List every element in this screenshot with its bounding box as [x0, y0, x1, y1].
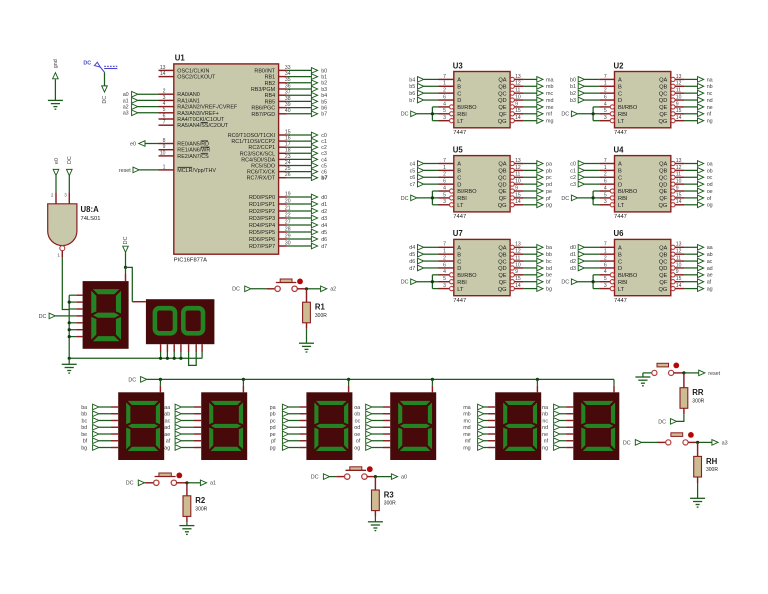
output terminal bf from U7 pin 15: [524, 279, 551, 286]
input terminal ng to bottom display 6: [542, 444, 573, 451]
svg-text:b3: b3: [321, 87, 327, 93]
input terminal a0 to U1 RA0: [123, 91, 159, 98]
input terminal e0 to U8:A: [53, 158, 60, 192]
svg-text:QD: QD: [659, 266, 668, 272]
ground symbol below R2: [179, 526, 194, 535]
svg-text:b4: b4: [409, 77, 415, 83]
svg-text:DC: DC: [401, 280, 409, 286]
svg-text:c6: c6: [321, 170, 327, 176]
output terminal oa from U4 pin 13: [684, 160, 712, 167]
svg-text:QD: QD: [498, 98, 507, 104]
wire bus to upper display1 pin 7: [68, 335, 83, 338]
svg-text:B: B: [457, 169, 461, 175]
svg-text:7447: 7447: [453, 130, 466, 136]
input terminal nf to bottom display 6: [544, 438, 574, 445]
svg-text:c2: c2: [321, 145, 327, 151]
output terminal md from U3 pin 10: [524, 97, 554, 104]
ground symbol below upper displays: [62, 358, 77, 373]
svg-text:md: md: [546, 98, 554, 104]
svg-text:aa: aa: [707, 245, 713, 251]
wire upper display2 bottom pin 4: [179, 344, 182, 360]
svg-text:U1: U1: [175, 53, 186, 62]
svg-text:pb: pb: [270, 412, 276, 418]
power terminal DC below RR: [658, 418, 676, 425]
input terminal d2 to U6 pin 2: [570, 258, 599, 265]
wire bus to upper display1 pin 4: [69, 315, 82, 317]
svg-text:QF: QF: [499, 196, 507, 202]
svg-text:LT: LT: [618, 119, 625, 125]
svg-text:ng: ng: [542, 445, 548, 451]
svg-text:DC: DC: [311, 475, 319, 481]
svg-text:RC5/SDO: RC5/SDO: [251, 164, 275, 170]
svg-text:LT: LT: [618, 287, 625, 293]
input terminal b6 to U3 pin 2: [409, 90, 438, 97]
svg-text:LT: LT: [457, 203, 464, 209]
svg-text:QA: QA: [659, 162, 667, 168]
input terminal mg to bottom display 5: [463, 444, 495, 451]
svg-text:BI/RBO: BI/RBO: [618, 273, 638, 279]
input terminal pa to bottom display 3: [270, 404, 307, 411]
input terminal d7 to U7 pin 6: [409, 265, 438, 272]
output terminal c1 from U1: [287, 138, 327, 145]
output terminal d2 from U1: [287, 208, 327, 215]
svg-text:DC: DC: [83, 61, 91, 67]
svg-text:QB: QB: [498, 84, 506, 90]
svg-text:pe: pe: [270, 432, 276, 438]
input terminal na to bottom display 6: [542, 404, 573, 411]
svg-text:be: be: [81, 432, 87, 438]
svg-text:ad: ad: [164, 425, 170, 431]
svg-text:a1: a1: [123, 98, 129, 104]
svg-text:of: of: [356, 439, 361, 445]
svg-text:B: B: [618, 84, 622, 90]
svg-text:aa: aa: [164, 405, 170, 411]
input terminal pe to bottom display 3: [270, 431, 307, 438]
ground terminal gnd (top left): [52, 59, 59, 100]
svg-text:RE0/AN5/RD: RE0/AN5/RD: [177, 142, 209, 148]
input terminal b4 to U3 pin 7: [409, 76, 438, 83]
input terminal c2 to U4 pin 2: [570, 174, 599, 181]
svg-text:nb: nb: [542, 412, 548, 418]
ground symbol (top left): [48, 100, 63, 109]
input terminal ma to bottom display 5: [463, 404, 495, 411]
output terminal d5 from U1: [287, 229, 327, 236]
svg-text:QE: QE: [498, 189, 506, 195]
input terminal d6 to U7 pin 2: [409, 258, 438, 265]
svg-text:QB: QB: [498, 252, 506, 258]
wire bus to upper display1 pin 1: [69, 294, 82, 296]
wire DC to upper display 1 top pin: [125, 267, 127, 281]
input terminal af to bottom display 2: [166, 438, 201, 445]
output terminal mg from U3 pin 14: [524, 117, 554, 124]
svg-text:U3: U3: [453, 61, 464, 70]
svg-text:c6: c6: [410, 175, 416, 181]
output terminal c4 from U1: [287, 156, 327, 163]
svg-text:2: 2: [51, 193, 54, 198]
svg-text:A: A: [618, 162, 622, 168]
svg-text:nf: nf: [544, 439, 549, 445]
input terminal b3 to U2 pin 6: [570, 97, 599, 104]
output terminal pg from U5 pin 14: [524, 202, 552, 209]
svg-text:pd: pd: [546, 182, 552, 188]
svg-text:e0: e0: [54, 158, 60, 164]
svg-text:300R: 300R: [692, 398, 704, 404]
wire bus to upper display1 pin 5: [68, 321, 83, 324]
svg-text:RD7/PSP7: RD7/PSP7: [249, 244, 275, 250]
input terminal mc to bottom display 5: [464, 417, 496, 424]
svg-text:pg: pg: [270, 445, 276, 451]
svg-text:QG: QG: [498, 203, 507, 209]
svg-text:BI/RBO: BI/RBO: [457, 273, 477, 279]
output terminal me from U3 pin 9: [524, 104, 554, 111]
wire DC to upper display 2 left pin: [126, 267, 146, 301]
wire DC to bottom display 5 top pin: [536, 378, 539, 393]
push button near R3: [345, 466, 373, 479]
output terminal pe from U5 pin 9: [524, 188, 552, 195]
output terminal c2 from U1: [287, 144, 327, 151]
output terminal be from U7 pin 9: [524, 272, 552, 279]
svg-text:D: D: [618, 98, 622, 104]
svg-text:QE: QE: [659, 105, 667, 111]
output terminal nb from U2 pin 12: [684, 83, 712, 90]
output terminal od from U4 pin 10: [684, 181, 712, 188]
svg-text:b6: b6: [409, 91, 415, 97]
svg-text:QF: QF: [659, 280, 667, 286]
wire button RH to junction: [688, 441, 712, 444]
input terminal nc to bottom display 6: [542, 417, 573, 424]
output terminal pd from U5 pin 10: [524, 181, 552, 188]
svg-text:b4: b4: [321, 93, 327, 99]
svg-text:D: D: [457, 266, 461, 272]
svg-text:me: me: [463, 432, 471, 438]
input terminal d1 to U6 pin 1: [570, 251, 599, 258]
svg-text:B: B: [618, 252, 622, 258]
svg-text:d5: d5: [409, 252, 415, 258]
output terminal c5 from U1: [287, 162, 327, 169]
svg-text:QE: QE: [498, 273, 506, 279]
output terminal nc from U2 pin 11: [684, 90, 712, 97]
output terminal d1 from U1: [287, 201, 327, 208]
svg-text:RD2/PSP2: RD2/PSP2: [249, 209, 275, 215]
svg-text:QC: QC: [659, 91, 668, 97]
svg-text:mg: mg: [546, 119, 554, 125]
svg-text:7447: 7447: [614, 214, 627, 220]
input terminal pb to bottom display 3: [270, 411, 307, 418]
output terminal d3 from U1: [287, 215, 327, 222]
output terminal b5 from U1: [287, 98, 327, 105]
svg-text:C: C: [618, 91, 622, 97]
svg-text:LT: LT: [457, 287, 464, 293]
svg-text:d6: d6: [409, 259, 415, 265]
svg-text:me: me: [546, 105, 554, 111]
output terminal nf from U2 pin 15: [684, 111, 711, 118]
7-segment display bottom 3: [306, 392, 352, 460]
output terminal ba from U7 pin 13: [524, 244, 552, 251]
power terminal DC to button R1: [232, 286, 275, 293]
svg-text:7447: 7447: [453, 214, 466, 220]
svg-text:c7: c7: [410, 182, 416, 188]
svg-text:c0: c0: [570, 161, 576, 167]
input terminal c3 to U4 pin 6: [570, 181, 599, 188]
input terminal ne to bottom display 6: [542, 431, 573, 438]
svg-text:oa: oa: [707, 161, 713, 167]
svg-text:reset: reset: [119, 168, 131, 174]
svg-text:QG: QG: [658, 203, 667, 209]
svg-text:og: og: [707, 203, 713, 209]
svg-text:RA4/T0CKI/C1OUT: RA4/T0CKI/C1OUT: [177, 117, 225, 123]
svg-text:c3: c3: [321, 151, 327, 157]
input terminal d0 to U6 pin 7: [570, 244, 599, 251]
resistor RR 300R: [677, 373, 705, 422]
output terminal d6 from U1: [287, 236, 327, 243]
input terminal ab to bottom display 2: [164, 411, 201, 418]
input terminal oc to bottom display 4: [355, 417, 391, 424]
svg-text:RD3/PSP3: RD3/PSP3: [249, 216, 275, 222]
svg-text:RB6/PGC: RB6/PGC: [251, 106, 275, 112]
svg-text:RB3/PGM: RB3/PGM: [251, 87, 276, 93]
wire button to junction near R1: [297, 287, 320, 290]
svg-text:RB0/INT: RB0/INT: [254, 68, 275, 74]
svg-text:c0: c0: [321, 133, 327, 139]
svg-text:pb: pb: [546, 168, 552, 174]
input terminal bb to bottom display 1: [81, 411, 118, 418]
svg-text:DC: DC: [123, 236, 129, 244]
svg-text:OSC2/CLKOUT: OSC2/CLKOUT: [177, 75, 216, 81]
input terminal ba to bottom display 1: [81, 404, 118, 411]
svg-text:md: md: [463, 425, 471, 431]
svg-text:ng: ng: [707, 119, 713, 125]
input terminal d5 to U7 pin 1: [409, 251, 438, 258]
resistor R3 300R: [372, 477, 397, 522]
wire bus bottom horizontal: [68, 357, 203, 360]
input terminal ob to bottom display 4: [354, 411, 390, 418]
NAND gate U8:A 74LS01: [48, 192, 101, 257]
svg-text:be: be: [546, 273, 552, 279]
svg-text:BI/RBO: BI/RBO: [457, 105, 477, 111]
svg-text:300R: 300R: [706, 467, 718, 473]
wire upper display2 bottom pin 7: [201, 344, 203, 358]
svg-text:RBI: RBI: [457, 196, 467, 202]
microcontroller U1 PIC16F877A: [159, 53, 291, 263]
DC terminal below blue symbol: [101, 72, 108, 103]
power terminal DC to button RH: [623, 439, 666, 446]
svg-text:od: od: [354, 425, 360, 431]
svg-text:af: af: [166, 439, 171, 445]
svg-text:RC1/T1OSI/CCP2: RC1/T1OSI/CCP2: [231, 139, 275, 145]
output terminal c6 from U1: [287, 168, 327, 175]
svg-text:ag: ag: [164, 445, 170, 451]
floating DC terminal (blue, being placed): [83, 61, 117, 73]
svg-text:ac: ac: [165, 418, 171, 424]
svg-text:R2: R2: [195, 496, 206, 505]
svg-text:QF: QF: [659, 196, 667, 202]
svg-text:QC: QC: [498, 175, 507, 181]
output terminal mf from U3 pin 15: [524, 111, 553, 118]
svg-text:mc: mc: [464, 418, 471, 424]
segment bus wire left of upper display: [68, 295, 70, 358]
output terminal a3: [712, 439, 728, 446]
svg-text:B: B: [457, 84, 461, 90]
svg-text:A: A: [457, 246, 461, 252]
svg-text:QA: QA: [498, 162, 506, 168]
svg-text:b0: b0: [321, 68, 327, 74]
svg-text:ne: ne: [542, 432, 548, 438]
7-segment display (upper dual digit): [146, 299, 215, 344]
output terminal ma from U3 pin 13: [524, 76, 554, 83]
input terminal me to bottom display 5: [463, 431, 495, 438]
svg-text:nf: nf: [707, 112, 712, 118]
input terminal c0 to U4 pin 7: [570, 160, 599, 167]
svg-text:A: A: [618, 246, 622, 252]
svg-text:RBI: RBI: [457, 280, 467, 286]
input terminal c6 to U5 pin 2: [410, 174, 439, 181]
svg-text:DC: DC: [401, 112, 409, 118]
push button near RH: [666, 432, 694, 445]
svg-text:7447: 7447: [614, 130, 627, 136]
7-segment display bottom 2: [201, 392, 247, 460]
svg-text:R1: R1: [315, 303, 326, 312]
ground symbol left of reset button: [635, 373, 651, 386]
svg-text:QF: QF: [499, 280, 507, 286]
svg-text:RBI: RBI: [618, 280, 628, 286]
svg-text:mg: mg: [463, 445, 471, 451]
output terminal pa from U5 pin 13: [524, 160, 552, 167]
svg-text:pe: pe: [546, 189, 552, 195]
svg-text:RC7/RX/DT: RC7/RX/DT: [247, 176, 276, 182]
output terminal bb from U7 pin 12: [524, 251, 552, 258]
power terminal DC to U3 BI/RBO,RBI,LT: [401, 107, 439, 121]
svg-text:QB: QB: [659, 169, 667, 175]
output terminal nd from U2 pin 10: [684, 97, 712, 104]
svg-text:DC: DC: [561, 196, 569, 202]
svg-text:d0: d0: [321, 195, 327, 201]
power terminal DC to segment bus: [39, 313, 70, 320]
svg-text:BI/RBO: BI/RBO: [618, 189, 638, 195]
input terminal og to bottom display 4: [354, 444, 390, 451]
wire upper display2 bottom pins 5,6 loop: [189, 344, 197, 365]
svg-text:DC: DC: [67, 156, 73, 164]
svg-text:QG: QG: [658, 119, 667, 125]
svg-text:b3: b3: [570, 98, 576, 104]
svg-text:QD: QD: [498, 182, 507, 188]
7-segment display bottom 4: [390, 392, 436, 460]
svg-text:og: og: [354, 445, 360, 451]
svg-text:RB2: RB2: [265, 81, 276, 87]
svg-text:b1: b1: [570, 84, 576, 90]
input terminal md to bottom display 5: [463, 424, 495, 431]
svg-text:bc: bc: [81, 418, 87, 424]
svg-text:c4: c4: [410, 161, 416, 167]
wire DC to bottom display 3 top pin: [347, 378, 350, 393]
svg-text:oc: oc: [707, 175, 713, 181]
7447 decoder U3: [439, 61, 524, 136]
svg-text:QG: QG: [498, 287, 507, 293]
input terminal ae to bottom display 2: [164, 431, 201, 438]
svg-text:300R: 300R: [195, 506, 207, 512]
svg-text:ad: ad: [707, 266, 713, 272]
svg-text:b5: b5: [409, 84, 415, 90]
wire upper display2 bottom pin 1: [159, 344, 162, 360]
input terminal ag to bottom display 2: [164, 444, 201, 451]
7-segment display bottom 6: [573, 392, 619, 460]
svg-text:pc: pc: [546, 175, 552, 181]
svg-text:RC3/SCK/SCL: RC3/SCK/SCL: [240, 151, 275, 157]
svg-text:B: B: [457, 252, 461, 258]
output terminal c0 from U1: [287, 132, 327, 139]
wire U8:A output to segment bus: [62, 257, 69, 310]
output terminal b7 from U1: [287, 111, 327, 118]
output terminal pf from U5 pin 15: [524, 195, 551, 202]
wire bus to upper display1 pin 3: [69, 308, 82, 310]
svg-text:nb: nb: [707, 84, 713, 90]
svg-text:A: A: [457, 162, 461, 168]
svg-text:d5: d5: [321, 230, 327, 236]
input terminal ac to bottom display 2: [165, 417, 202, 424]
output terminal ae from U6 pin 9: [684, 272, 712, 279]
svg-text:na: na: [707, 77, 713, 83]
input terminal bg to bottom display 1: [81, 444, 118, 451]
input terminal pd to bottom display 3: [270, 424, 307, 431]
svg-text:mb: mb: [546, 84, 554, 90]
power terminal DC to U5 BI/RBO,RBI,LT: [401, 191, 439, 205]
output terminal pb from U5 pin 12: [524, 167, 552, 174]
input terminal pc to bottom display 3: [270, 417, 307, 424]
input terminal b1 to U2 pin 1: [570, 83, 599, 90]
svg-text:RC4/SDI/SDA: RC4/SDI/SDA: [241, 157, 275, 163]
svg-text:A: A: [618, 78, 622, 84]
svg-text:QE: QE: [498, 105, 506, 111]
push button near R1: [275, 279, 303, 292]
svg-text:ag: ag: [707, 286, 713, 292]
svg-text:mf: mf: [546, 112, 552, 118]
power terminal DC to button R3: [311, 473, 345, 480]
svg-text:RB7/PGD: RB7/PGD: [251, 112, 275, 118]
svg-text:oe: oe: [354, 432, 360, 438]
wire button to junction near R2: [177, 481, 201, 484]
wire bus to upper display1 pin 2: [68, 301, 83, 304]
svg-text:QA: QA: [498, 78, 506, 84]
input terminal mf to bottom display 5: [465, 438, 496, 445]
svg-text:af: af: [707, 280, 712, 286]
svg-text:ba: ba: [81, 405, 87, 411]
svg-text:ma: ma: [546, 77, 554, 83]
svg-text:d3: d3: [321, 216, 327, 222]
svg-text:LT: LT: [618, 203, 625, 209]
svg-text:3: 3: [64, 193, 67, 198]
svg-text:ma: ma: [463, 405, 471, 411]
input terminal b7 to U3 pin 6: [409, 97, 438, 104]
7447 decoder U7: [439, 229, 524, 304]
svg-text:RE2/AN7/CS: RE2/AN7/CS: [177, 154, 209, 160]
svg-text:b6: b6: [321, 106, 327, 112]
svg-text:bf: bf: [83, 439, 88, 445]
svg-text:pg: pg: [546, 203, 552, 209]
svg-text:QE: QE: [659, 189, 667, 195]
output terminal og from U4 pin 14: [684, 202, 712, 209]
svg-text:7447: 7447: [453, 298, 466, 304]
svg-text:C: C: [618, 259, 622, 265]
svg-text:LT: LT: [457, 119, 464, 125]
output terminal oc from U4 pin 11: [684, 174, 712, 181]
input terminal bc to bottom display 1: [81, 417, 118, 424]
power terminal DC to U4 BI/RBO,RBI,LT: [561, 191, 599, 205]
svg-text:oc: oc: [355, 418, 361, 424]
input terminal d3 to U6 pin 6: [570, 265, 599, 272]
svg-text:d1: d1: [321, 202, 327, 208]
svg-text:RC0/T1OSO/T1CKI: RC0/T1OSO/T1CKI: [228, 133, 275, 139]
svg-text:oe: oe: [707, 189, 713, 195]
power terminal DC to button R2: [126, 480, 154, 487]
